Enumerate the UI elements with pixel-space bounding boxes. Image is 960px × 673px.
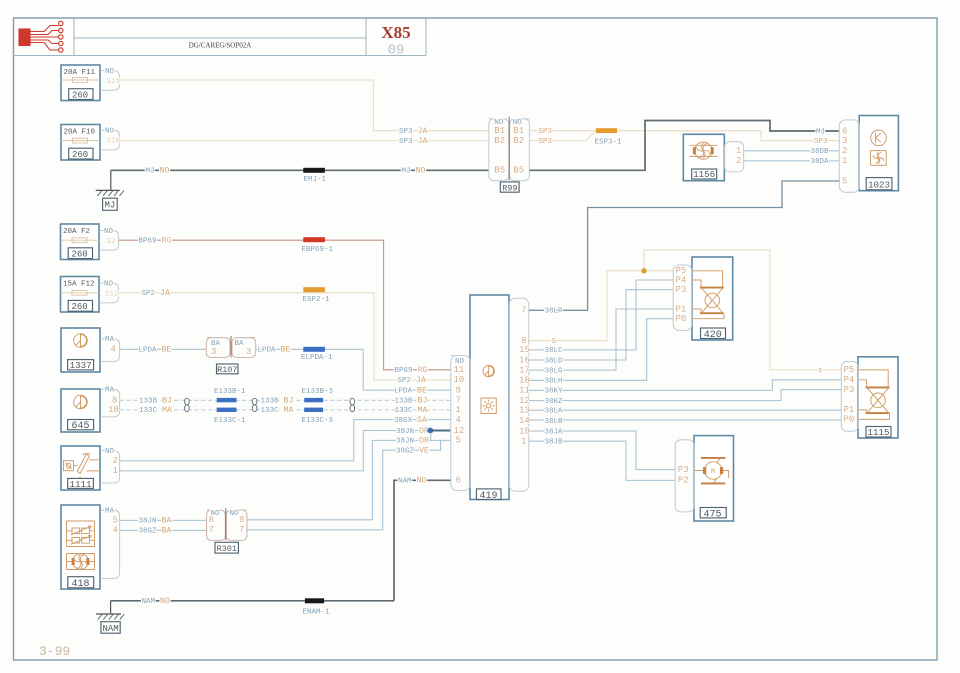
svg-text:SP2 JA: SP2 JA	[142, 289, 170, 298]
svg-text:15: 15	[519, 345, 530, 355]
svg-text:5: 5	[113, 516, 118, 526]
svg-text:18: 18	[108, 405, 119, 415]
wire 38DB from 1156 pin1 to 1023 pin 2	[744, 150, 840, 152]
svg-text:8: 8	[209, 515, 214, 525]
wire 38LB from 419 pin 14 to 1115 P0	[529, 419, 842, 421]
wire 133C-MA (dashed, twisted pair) from 645 pin 18 to 419 pin 1	[120, 409, 451, 411]
svg-text:MA: MA	[105, 336, 115, 344]
svg-text:20A: 20A	[63, 228, 77, 236]
svg-text:12: 12	[519, 396, 530, 406]
wire BP69-RG from F2 to 419 pin 11	[119, 240, 451, 370]
component 420 (air mixing motor)	[692, 257, 733, 341]
svg-text:B2: B2	[494, 136, 505, 146]
svg-text:R301: R301	[217, 544, 237, 554]
svg-text:E133B-3: E133B-3	[302, 388, 334, 396]
splice EMJ-1	[303, 168, 326, 184]
wire 38GX-SA from 1111 pin 2 to 419 pin 4	[120, 420, 451, 461]
svg-text:SP3: SP3	[539, 128, 553, 136]
pin bracket of F10 (pin NO / wire S10)	[100, 128, 120, 150]
component 1023 (climate control panel)	[859, 116, 898, 191]
component 1337 (sensor)	[61, 328, 100, 372]
svg-text:S: S	[552, 338, 557, 346]
splice E133C-1	[214, 408, 246, 425]
svg-text:420: 420	[704, 330, 722, 341]
right pin bracket of 419 (pins 7 8 15 16 17 18 11 12 13 14 10 1)	[509, 298, 530, 491]
svg-text:260: 260	[72, 302, 88, 312]
svg-text:SP3: SP3	[539, 138, 553, 146]
svg-text:2: 2	[842, 146, 847, 156]
svg-text:17: 17	[519, 365, 530, 375]
svg-text:9: 9	[456, 385, 461, 395]
svg-text:5: 5	[456, 436, 461, 446]
svg-text:133C MA: 133C MA	[395, 406, 428, 415]
svg-text:X85: X85	[381, 23, 410, 42]
splice ESP3-1	[595, 128, 623, 146]
svg-text:13: 13	[519, 406, 530, 416]
svg-text:F2: F2	[81, 228, 90, 236]
svg-text:SP3: SP3	[814, 138, 828, 146]
wire 38JN-OR row2 from R301 pin 8	[247, 440, 451, 519]
svg-text:LPDA BE: LPDA BE	[139, 346, 172, 355]
svg-text:18: 18	[519, 376, 530, 386]
svg-text:38LA: 38LA	[545, 408, 564, 416]
pin bracket of F2 (pin NO / wire S2)	[99, 228, 118, 250]
fuse F12 15A 260	[61, 277, 100, 313]
svg-text:S10: S10	[107, 138, 121, 146]
wire 38KZ from 419 pin 12 to 1115 P3	[529, 390, 842, 401]
wire SP3 from R99 B2 joining splice	[529, 131, 596, 141]
wire MJ-NO from ground to R99 B5	[111, 169, 489, 171]
twisted pair symbol 3	[350, 398, 355, 411]
wire SP3 from splice to 1023 pin 3	[617, 131, 839, 141]
svg-text:P3: P3	[676, 285, 687, 295]
svg-text:ESP3-1: ESP3-1	[595, 138, 623, 146]
svg-text:LPDA BE: LPDA BE	[394, 386, 427, 395]
svg-text:1: 1	[521, 437, 526, 447]
svg-text:P1: P1	[676, 304, 687, 314]
svg-text:418: 418	[72, 579, 90, 590]
component 1115 (air distribution motor)	[858, 357, 898, 438]
svg-text:20A: 20A	[64, 129, 78, 137]
svg-text:P1: P1	[844, 405, 855, 415]
wire 38JN-BA from 418 pin 5 to R301 pin 8	[120, 519, 207, 521]
svg-text:7: 7	[456, 396, 461, 406]
svg-text:MJ NO: MJ NO	[402, 167, 426, 176]
svg-text:NO: NO	[104, 281, 114, 289]
svg-text:38LD: 38LD	[545, 357, 564, 365]
svg-text:BP69 RG: BP69 RG	[395, 366, 428, 375]
svg-text:38LG: 38LG	[545, 367, 564, 375]
svg-text:P0: P0	[844, 415, 855, 425]
svg-text:DG/CAREG/SOP02A: DG/CAREG/SOP02A	[189, 42, 252, 50]
svg-text:133B BJ: 133B BJ	[261, 397, 294, 406]
svg-text:NAM: NAM	[103, 624, 119, 634]
component 418 (heater unit with fan)	[61, 505, 100, 590]
svg-text:R99: R99	[502, 183, 517, 193]
splice E133B-3	[302, 388, 334, 402]
svg-text:P5: P5	[844, 365, 855, 375]
svg-text:133B BJ: 133B BJ	[395, 397, 428, 406]
splice E133C-3	[302, 408, 334, 425]
svg-text:38KY: 38KY	[545, 388, 564, 396]
wire 38LC from 419 pin 15 to 420 P4	[529, 280, 673, 350]
svg-text:E133C-3: E133C-3	[302, 417, 334, 425]
svg-text:E133B-1: E133B-1	[214, 388, 246, 396]
svg-text:NO: NO	[105, 448, 115, 456]
svg-text:10: 10	[519, 426, 530, 436]
svg-text:38LC: 38LC	[545, 347, 564, 355]
wire SP3 from R99 B1 to splice ESP3-1	[529, 130, 596, 132]
svg-text:SP3 JA: SP3 JA	[399, 137, 427, 146]
pin bracket of 645 (pins MA / 8 / 18)	[100, 387, 119, 417]
svg-text:P3: P3	[844, 385, 855, 395]
svg-text:3-99: 3-99	[39, 644, 70, 659]
svg-text:38GZ VE: 38GZ VE	[396, 447, 429, 456]
wire 38JB from 419 pin 1 to 475 P2	[529, 441, 675, 480]
logo	[19, 21, 63, 52]
splice ESP2-1	[303, 287, 331, 304]
svg-text:4: 4	[113, 526, 118, 536]
svg-text:38KZ: 38KZ	[545, 398, 564, 406]
fuse F2 20A 260	[61, 224, 100, 260]
svg-text:MJ: MJ	[105, 201, 116, 211]
svg-text:2: 2	[113, 456, 118, 466]
svg-text:3: 3	[246, 347, 251, 357]
pin bracket of 1337 (pin MA / 4)	[100, 336, 119, 361]
wire 38KY from 419 pin 11 to 1115 P4	[529, 380, 842, 391]
connector R107	[206, 336, 255, 375]
wire 38LA from 419 pin 13 to 1115 P1	[529, 409, 842, 411]
svg-text:s: s	[818, 367, 823, 375]
pin bracket of 1156 (pins 1 / 2)	[725, 142, 744, 172]
svg-text:EMJ-1: EMJ-1	[304, 176, 327, 184]
svg-text:P3: P3	[678, 465, 689, 475]
svg-text:E133C-1: E133C-1	[214, 417, 246, 425]
wire S (tan) from 419 pin 8 to 420 P5 and 1115 P5	[529, 250, 842, 370]
pin bracket of 420 (pins P5 P4 P3 P1 P0)	[673, 265, 692, 330]
splice ENAM-1	[303, 598, 331, 616]
wire 38JN-OR from 1111 pin 1 to 419 pin 12	[120, 431, 428, 471]
component 475 (recirculation motor)	[694, 436, 734, 521]
component 1156 (blower motor)	[683, 134, 724, 180]
svg-text:133C MA: 133C MA	[139, 406, 172, 415]
pin bracket of 418 (pins MA / 5 / 4)	[100, 508, 119, 579]
wire 38LH from 419 pin 18 to 420 P0	[529, 319, 673, 381]
svg-text:8: 8	[112, 395, 117, 405]
svg-text:1: 1	[842, 156, 847, 166]
pin bracket of F11 (pin NO / wire S11)	[100, 68, 120, 90]
svg-text:7: 7	[239, 525, 244, 535]
svg-text:38JN OR: 38JN OR	[396, 437, 429, 446]
component 419 (HVAC control unit)	[470, 295, 509, 502]
wire MJ from R99 B5 to 1023 pin 6	[529, 121, 839, 171]
svg-text:P4: P4	[844, 375, 855, 385]
svg-text:16: 16	[519, 355, 530, 365]
svg-text:133B BJ: 133B BJ	[139, 397, 172, 406]
pin bracket of 1115 (pins P5 P4 P3 P1 P0)	[841, 362, 858, 432]
svg-text:6: 6	[456, 476, 461, 486]
splice E133B-1	[214, 388, 246, 402]
twisted pair symbol 2	[252, 398, 257, 411]
svg-text:M: M	[711, 468, 715, 475]
component 645 (sensor)	[61, 389, 100, 432]
svg-text:MA: MA	[105, 387, 115, 395]
wire SP2-JA from F12 to 419 pin 10	[119, 293, 451, 380]
svg-text:11: 11	[454, 365, 465, 375]
svg-text:38JN OR: 38JN OR	[396, 427, 429, 436]
pin bracket of 1111 (pins NO / 2 / 1)	[100, 448, 119, 483]
svg-text:NAM NO: NAM NO	[142, 597, 170, 606]
svg-text:38GZ BA: 38GZ BA	[139, 527, 172, 536]
svg-text:1: 1	[456, 405, 461, 415]
wire NAM-NO from ground to 419 pin 6	[111, 480, 451, 601]
left pin bracket of 419 (pins NO 11 10 9 7 1 4 12 5 6)	[451, 356, 470, 491]
svg-text:1115: 1115	[868, 427, 890, 438]
svg-text:F10: F10	[82, 129, 96, 137]
svg-text:260: 260	[72, 91, 88, 101]
svg-text:B5: B5	[513, 166, 524, 176]
wire 133B-BJ (dashed, twisted pair) from 645 pin 8 to 419 pin 7	[120, 399, 451, 401]
wire 38LG from 419 pin 17 to 420 P1	[529, 309, 673, 370]
wire branch dot to 38JN-OR row 2	[428, 433, 431, 441]
wire 38JA from 419 pin 10 to 475 P3	[529, 431, 675, 470]
wire 38GZ-VE from R301 pin 7 joining pin 5 row	[247, 440, 441, 530]
pin bracket of 1023 (pins 6 3 2 1 5)	[839, 120, 859, 192]
svg-text:SP3 JA: SP3 JA	[399, 127, 427, 136]
svg-text:NO: NO	[230, 510, 240, 518]
svg-text:14: 14	[519, 416, 530, 426]
svg-text:38LH: 38LH	[545, 378, 563, 386]
svg-text:MA: MA	[105, 508, 115, 516]
svg-text:S2: S2	[107, 238, 116, 246]
svg-text:ENAM-1: ENAM-1	[303, 608, 331, 616]
svg-text:4: 4	[456, 415, 461, 425]
svg-text:MJ: MJ	[816, 128, 825, 136]
svg-text:ELPDA-1: ELPDA-1	[301, 354, 333, 362]
svg-text:BP69 RG: BP69 RG	[139, 237, 172, 246]
svg-text:4: 4	[111, 344, 116, 354]
pin bracket of 475 (pins P3 P2)	[675, 440, 694, 512]
svg-text:NO: NO	[105, 68, 115, 76]
svg-text:38LR: 38LR	[545, 308, 564, 316]
ground NAM	[96, 601, 124, 634]
thick wire dot to 419 pin 12	[430, 430, 450, 432]
svg-text:38DB: 38DB	[811, 148, 830, 156]
twisted pair symbol 1	[185, 398, 190, 411]
wire 38LR from 419 pin 7 to 1023 pin 5	[529, 181, 840, 310]
svg-text:MJ NO: MJ NO	[146, 167, 170, 176]
wire 38GZ-BA from 418 pin 4 to R301 pin 7	[120, 529, 207, 531]
svg-text:LPDA BE: LPDA BE	[258, 346, 291, 355]
svg-text:20A: 20A	[64, 69, 78, 77]
svg-text:10: 10	[454, 375, 465, 385]
svg-text:8: 8	[239, 515, 244, 525]
svg-text:260: 260	[72, 250, 88, 260]
svg-text:12: 12	[454, 426, 465, 436]
svg-text:NO: NO	[104, 228, 114, 236]
fuse F10 20A 260	[61, 125, 100, 161]
splice EBP69-1	[302, 237, 334, 254]
wire LPDA-BE from 1337 pin 4 through R107 to 419 pin 9	[120, 349, 451, 390]
svg-text:ESP2-1: ESP2-1	[303, 296, 331, 304]
svg-text:B1: B1	[513, 126, 524, 136]
ground MJ	[96, 170, 124, 210]
wire S10/SP3-JA from F10 to R99 B2	[120, 140, 489, 142]
svg-text:S11: S11	[107, 78, 121, 86]
svg-text:3: 3	[211, 347, 216, 357]
svg-text:B5: B5	[494, 166, 505, 176]
splice ELPDA-1	[301, 347, 333, 362]
svg-text:1111: 1111	[70, 479, 93, 490]
svg-text:1023: 1023	[868, 179, 890, 190]
svg-text:F11: F11	[82, 69, 96, 77]
svg-text:1: 1	[113, 466, 118, 476]
svg-text:419: 419	[480, 491, 498, 502]
svg-text:SP2 JA: SP2 JA	[398, 376, 426, 385]
component 1111 (actuator)	[61, 446, 100, 490]
svg-text:2: 2	[736, 156, 741, 166]
svg-text:S12: S12	[105, 291, 119, 299]
svg-text:11: 11	[519, 386, 530, 396]
svg-text:7: 7	[209, 525, 214, 535]
svg-text:6: 6	[842, 126, 847, 136]
svg-text:BA: BA	[235, 340, 245, 348]
title block	[14, 18, 427, 59]
svg-text:38JA: 38JA	[545, 428, 564, 436]
svg-text:EBP69-1: EBP69-1	[302, 246, 334, 254]
svg-text:1: 1	[736, 146, 741, 156]
connector R301	[207, 508, 247, 554]
svg-text:5: 5	[842, 176, 847, 186]
junction dot node	[428, 428, 434, 434]
svg-text:133C MA: 133C MA	[261, 406, 294, 415]
junction dot S net	[641, 268, 646, 273]
svg-text:1337: 1337	[70, 360, 92, 371]
svg-text:B2: B2	[513, 136, 524, 146]
svg-text:38JB: 38JB	[545, 439, 564, 447]
svg-text:NO: NO	[105, 128, 115, 136]
pin bracket of F12 (pin NO / wire S12)	[99, 281, 118, 303]
fuse F11 20A 260	[61, 65, 100, 101]
svg-text:38GX SA: 38GX SA	[394, 416, 427, 425]
svg-text:15A: 15A	[63, 281, 77, 289]
svg-text:3: 3	[842, 136, 847, 146]
svg-text:38LB: 38LB	[545, 418, 564, 426]
svg-text:38JN BA: 38JN BA	[139, 517, 172, 526]
svg-text:7: 7	[521, 306, 526, 316]
svg-text:38DA: 38DA	[811, 158, 830, 166]
svg-text:09: 09	[388, 43, 405, 59]
wire 38LD from 419 pin 16 to 420 P3	[529, 290, 673, 360]
svg-text:P4: P4	[676, 275, 687, 285]
svg-text:B1: B1	[494, 126, 505, 136]
svg-text:F12: F12	[81, 281, 95, 289]
connector R99	[489, 117, 530, 194]
wire 38DA from 1156 pin2 to 1023 pin 1	[744, 160, 840, 162]
svg-text:P0: P0	[676, 314, 687, 324]
svg-text:260: 260	[72, 150, 88, 160]
svg-text:1156: 1156	[693, 169, 715, 180]
svg-text:475: 475	[704, 509, 722, 520]
svg-text:645: 645	[72, 421, 90, 432]
svg-text:P2: P2	[678, 476, 689, 486]
svg-text:R107: R107	[217, 365, 237, 375]
wire S11/SP3-JA from F11 to R99 B1	[120, 80, 489, 131]
svg-text:NAM NO: NAM NO	[398, 477, 426, 486]
